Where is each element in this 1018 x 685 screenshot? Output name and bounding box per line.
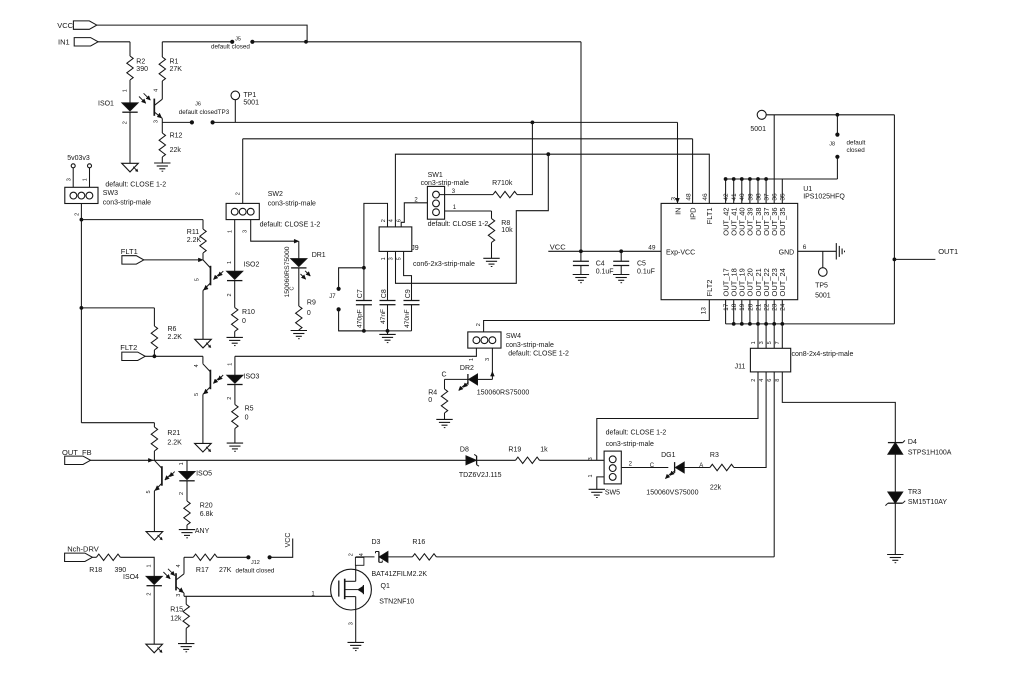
connector SW4 con3-strip-male xyxy=(468,332,501,348)
svg-text:default: CLOSE 1-2: default: CLOSE 1-2 xyxy=(260,222,321,229)
svg-text:1: 1 xyxy=(751,341,757,344)
svg-text:6: 6 xyxy=(396,219,402,222)
svg-text:R1: R1 xyxy=(170,59,179,66)
svg-text:ISO3: ISO3 xyxy=(244,374,260,381)
wire R17 to J12 xyxy=(217,556,248,558)
wire FLT2 to ISO3 collector xyxy=(145,355,203,357)
svg-text:SW2: SW2 xyxy=(268,191,283,198)
net label OUT1 stub xyxy=(894,258,935,260)
svg-text:DG1: DG1 xyxy=(661,452,676,459)
svg-text:GND: GND xyxy=(779,249,795,256)
test point TP5 xyxy=(822,251,824,267)
svg-text:C7: C7 xyxy=(357,289,364,298)
optocoupler ISO5 phototransistor xyxy=(154,460,162,468)
svg-text:ISO4: ISO4 xyxy=(123,574,139,581)
svg-text:TP5: TP5 xyxy=(815,282,828,289)
resistor R3 xyxy=(710,464,734,470)
svg-text:5001: 5001 xyxy=(815,292,831,299)
jumper J6 default closed xyxy=(190,120,194,124)
svg-text:default: CLOSE 1-2: default: CLOSE 1-2 xyxy=(508,351,569,358)
wire SW5 pin1 to ground xyxy=(597,477,604,489)
svg-text:R19: R19 xyxy=(508,447,521,454)
wire Q1 drain to D3 node xyxy=(355,557,357,570)
ground U1 GND rotated xyxy=(835,243,837,259)
svg-text:FLT2: FLT2 xyxy=(120,343,137,352)
svg-text:ISO2: ISO2 xyxy=(243,261,259,268)
svg-text:22k: 22k xyxy=(170,147,182,154)
transistor Q1 body diode xyxy=(345,589,358,591)
svg-text:1: 1 xyxy=(227,230,233,233)
svg-text:DR1: DR1 xyxy=(312,252,326,259)
svg-text:27K: 27K xyxy=(170,66,183,73)
svg-text:R20: R20 xyxy=(200,502,213,509)
svg-text:con3-strip-male: con3-strip-male xyxy=(103,200,151,207)
optocoupler ISO1 light arrows xyxy=(139,97,146,104)
svg-text:STPS1H100A: STPS1H100A xyxy=(908,449,952,456)
transistor Q1 STN2NF10 xyxy=(331,569,372,610)
junction FLT1 rail xyxy=(546,152,550,156)
resistor R5 xyxy=(232,405,238,429)
wire emitter to J6 xyxy=(162,121,192,123)
svg-text:4: 4 xyxy=(759,379,765,382)
svg-text:TP1: TP1 xyxy=(243,92,256,99)
optocoupler ISO5 light arrows xyxy=(165,475,170,480)
jumper J12 default closed xyxy=(246,555,250,559)
connector SW1 con3-strip-male xyxy=(427,186,444,219)
ground arrow ISO4 xyxy=(146,644,163,653)
svg-text:TDZ6V2J.115: TDZ6V2J.115 xyxy=(459,472,502,479)
svg-text:BAT41ZFILM2.2K: BAT41ZFILM2.2K xyxy=(372,571,428,578)
svg-text:6.8k: 6.8k xyxy=(200,511,214,518)
svg-text:3: 3 xyxy=(670,197,677,201)
connector J9 con6-2x3-strip-male xyxy=(379,227,412,252)
svg-text:1: 1 xyxy=(381,257,387,260)
wire U1 FLT2 pin to SW4 pin2 xyxy=(484,300,710,332)
ground arrow ISO3 xyxy=(195,443,212,452)
svg-text:5001: 5001 xyxy=(243,100,259,107)
junction FLT-R6 node xyxy=(80,306,84,310)
wire Q1 source to ground xyxy=(355,610,357,642)
svg-text:con3-strip-male: con3-strip-male xyxy=(421,180,469,187)
ground R4 xyxy=(436,418,452,420)
ground R9 xyxy=(291,330,307,332)
wire U1 bottom OUT pins to bus xyxy=(725,300,727,324)
IC U1 IPS1025HFQ xyxy=(661,203,798,299)
svg-text:OUT_FB: OUT_FB xyxy=(62,448,92,457)
resistor R16 xyxy=(412,554,436,560)
capacitor C7 xyxy=(356,300,372,302)
svg-text:0: 0 xyxy=(428,397,432,404)
svg-text:R6: R6 xyxy=(168,326,177,333)
wire test rail to OUT1 corner xyxy=(766,114,894,116)
svg-text:J7: J7 xyxy=(329,294,336,300)
svg-text:37: 37 xyxy=(764,193,771,201)
svg-text:5: 5 xyxy=(194,278,200,281)
svg-text:C: C xyxy=(289,287,295,291)
ground arrow ISO1 xyxy=(122,163,139,172)
wire J11 pin8 to D4 xyxy=(782,372,895,443)
junction VCC jog xyxy=(304,40,308,44)
ground C5 xyxy=(613,274,629,276)
svg-text:2: 2 xyxy=(476,323,482,326)
resistor R18 xyxy=(92,556,96,558)
connector SW5 con3-strip-male xyxy=(604,451,621,484)
svg-text:D4: D4 xyxy=(908,439,917,446)
wire J9 pin2 jog to C7 xyxy=(364,203,388,300)
svg-text:1: 1 xyxy=(469,358,475,361)
svg-text:5: 5 xyxy=(767,341,773,344)
wire SW4 pin1 to ISO3 anode xyxy=(235,348,477,356)
ground C8 rail xyxy=(379,333,395,335)
svg-text:2.2K: 2.2K xyxy=(168,334,183,341)
wire R18 to ISO4 LED xyxy=(120,557,154,576)
svg-text:U1: U1 xyxy=(803,186,812,193)
wire D4 to TR3 xyxy=(894,454,896,492)
svg-text:1: 1 xyxy=(228,363,234,366)
svg-text:4: 4 xyxy=(194,364,200,367)
svg-text:2: 2 xyxy=(74,213,80,216)
svg-text:5: 5 xyxy=(396,257,402,260)
ground R15 xyxy=(178,643,194,645)
svg-text:21: 21 xyxy=(755,303,762,311)
svg-text:3: 3 xyxy=(389,257,395,260)
wire OUT_FB to D8 xyxy=(91,459,467,461)
svg-text:ANY: ANY xyxy=(195,528,210,535)
connector SW2 con3-strip-male xyxy=(226,203,259,219)
svg-text:48: 48 xyxy=(685,193,692,201)
wire SW2 pin1 to ISO2 LED xyxy=(234,220,236,271)
svg-text:2: 2 xyxy=(122,121,128,124)
svg-text:SW5: SW5 xyxy=(605,490,620,497)
junction C7 top xyxy=(362,266,366,270)
svg-text:1: 1 xyxy=(588,474,594,477)
resistor R9 xyxy=(296,306,302,330)
resistor R11 xyxy=(202,220,204,229)
svg-text:ISO5: ISO5 xyxy=(196,470,212,477)
wire J9 pin1 to C8 xyxy=(387,252,389,301)
svg-text:IN: IN xyxy=(674,207,683,215)
svg-text:150060RS75000: 150060RS75000 xyxy=(477,389,530,396)
svg-text:4: 4 xyxy=(176,564,182,567)
jumper J8 default closed xyxy=(836,115,838,135)
capacitor C9 xyxy=(404,300,420,302)
svg-text:1k: 1k xyxy=(540,447,548,454)
wire R19 to SW5 pin3 xyxy=(540,459,604,461)
optocoupler ISO3 light arrows xyxy=(213,378,218,383)
svg-text:C8: C8 xyxy=(381,289,388,298)
test point TP1 xyxy=(231,91,240,100)
wire DG1 to R3 xyxy=(684,467,710,469)
svg-text:J8: J8 xyxy=(829,141,835,147)
svg-text:390: 390 xyxy=(136,66,148,73)
svg-text:Q1: Q1 xyxy=(381,583,390,590)
svg-text:default: CLOSE 1-2: default: CLOSE 1-2 xyxy=(606,430,667,437)
svg-text:5: 5 xyxy=(194,393,200,396)
svg-text:C: C xyxy=(442,372,447,379)
svg-text:R21: R21 xyxy=(167,430,180,437)
svg-text:36: 36 xyxy=(772,193,779,201)
wire DR2 to R4 xyxy=(445,378,468,380)
wire J11 pin4 to R3 xyxy=(765,372,767,468)
svg-text:1: 1 xyxy=(179,462,185,465)
resistor R20 xyxy=(184,501,190,525)
port FLT1 xyxy=(122,256,144,264)
svg-text:22: 22 xyxy=(764,303,771,311)
wire OUT1 vertical xyxy=(893,115,895,324)
wire SW2 pin2 to IPD line xyxy=(242,139,244,204)
port VCC xyxy=(73,21,96,29)
svg-text:con3-strip-male: con3-strip-male xyxy=(606,441,654,448)
svg-text:3: 3 xyxy=(66,178,72,181)
svg-text:VCC: VCC xyxy=(57,21,73,30)
svg-text:C: C xyxy=(650,463,655,469)
svg-text:Exp-VCC: Exp-VCC xyxy=(666,249,695,256)
svg-text:OUT1: OUT1 xyxy=(938,247,958,256)
jumper J5 default closed xyxy=(230,40,234,44)
wire SW1 pin1 to R8 xyxy=(445,210,492,212)
svg-text:FLT1: FLT1 xyxy=(121,247,138,256)
svg-text:J6: J6 xyxy=(195,101,201,107)
svg-text:2: 2 xyxy=(381,219,387,222)
resistor R12 xyxy=(159,133,165,157)
svg-text:R2: R2 xyxy=(136,59,145,66)
port OUT_FB xyxy=(65,456,91,464)
svg-text:2: 2 xyxy=(227,397,233,400)
wire left bus to R21 xyxy=(81,422,154,424)
svg-text:3: 3 xyxy=(242,230,248,233)
svg-text:C9: C9 xyxy=(405,289,412,298)
ground R5 xyxy=(227,442,243,444)
resistor R4 xyxy=(441,389,447,413)
wire J9 pin5 to C9 xyxy=(404,252,412,301)
wire J6 to U1 pin 3 IN xyxy=(213,121,678,123)
svg-text:R710k: R710k xyxy=(492,180,513,187)
ground arrow ISO2 xyxy=(195,339,212,348)
svg-text:closed: closed xyxy=(847,147,866,154)
svg-text:39: 39 xyxy=(747,193,754,201)
svg-text:VCC: VCC xyxy=(550,243,566,252)
resistor R6 xyxy=(153,308,155,326)
optocoupler ISO3 phototransistor xyxy=(202,356,204,364)
wire OUT bus riser to test rail xyxy=(773,115,775,179)
svg-text:0: 0 xyxy=(307,310,311,317)
svg-text:46: 46 xyxy=(702,193,709,201)
svg-text:C4: C4 xyxy=(596,260,605,267)
port FLT2 xyxy=(122,352,145,360)
svg-text:default closedTP3: default closedTP3 xyxy=(179,109,230,116)
wire FLT1 to ISO2 collector xyxy=(144,259,199,261)
svg-text:150060VS75000: 150060VS75000 xyxy=(646,489,698,496)
wire node to R6 xyxy=(81,307,154,309)
svg-text:ISO1: ISO1 xyxy=(98,101,114,108)
svg-text:J5: J5 xyxy=(235,36,241,42)
svg-text:42: 42 xyxy=(723,193,730,201)
svg-text:J12: J12 xyxy=(251,560,260,566)
svg-text:R5: R5 xyxy=(245,406,254,413)
resistor R17 xyxy=(184,556,193,558)
port Nch-DRV xyxy=(65,553,93,561)
svg-text:default: CLOSE 1-2: default: CLOSE 1-2 xyxy=(428,221,489,228)
svg-text:DR2: DR2 xyxy=(460,365,474,372)
svg-text:OUT_35: OUT_35 xyxy=(778,207,787,235)
svg-text:J9: J9 xyxy=(411,245,419,252)
svg-text:2: 2 xyxy=(349,553,355,556)
resistor R21 xyxy=(153,423,155,427)
svg-text:20: 20 xyxy=(747,303,754,311)
svg-text:5v03v3: 5v03v3 xyxy=(67,155,90,162)
svg-text:R11: R11 xyxy=(187,229,199,236)
svg-text:IPS1025HFQ: IPS1025HFQ xyxy=(803,194,845,201)
svg-text:TR3: TR3 xyxy=(908,489,921,496)
capacitor C4 xyxy=(580,251,582,261)
wire FLT1 rail J9 pin4 to U1 pin 46 xyxy=(395,154,709,227)
svg-text:2: 2 xyxy=(179,492,185,495)
svg-text:17: 17 xyxy=(723,303,730,311)
resistor R2 xyxy=(129,42,131,56)
svg-text:0: 0 xyxy=(245,415,249,422)
capacitor C8 xyxy=(380,300,396,302)
svg-text:40: 40 xyxy=(739,193,746,201)
svg-text:con6-2x3-strip-male: con6-2x3-strip-male xyxy=(413,261,475,268)
resistor R7 xyxy=(493,191,517,197)
ground R20 xyxy=(179,529,195,531)
ground arrow ISO5 xyxy=(146,532,163,541)
svg-text:27K: 27K xyxy=(219,567,232,574)
junction R7-IN xyxy=(531,121,535,125)
svg-text:5001: 5001 xyxy=(750,126,766,133)
svg-text:SW3: SW3 xyxy=(103,190,118,197)
junction FLT2-R6 xyxy=(153,354,157,358)
resistor R1 xyxy=(161,42,163,57)
wire R3 to J11 pin4 xyxy=(734,467,766,469)
svg-text:SW4: SW4 xyxy=(506,333,521,340)
svg-text:D8: D8 xyxy=(460,447,469,454)
wire J11 pin6 to drain net xyxy=(773,372,775,557)
optocoupler ISO2 phototransistor xyxy=(203,260,211,268)
wire J11 pin2 to SW5 pin3 xyxy=(597,372,758,460)
svg-text:R9: R9 xyxy=(307,300,316,307)
svg-text:Nch-DRV: Nch-DRV xyxy=(67,545,99,554)
svg-text:6: 6 xyxy=(803,244,807,251)
svg-text:41: 41 xyxy=(731,193,738,201)
svg-text:49: 49 xyxy=(648,245,656,252)
ground SW5 xyxy=(589,488,605,490)
svg-text:3: 3 xyxy=(485,358,491,361)
svg-text:default closed: default closed xyxy=(211,43,250,50)
svg-text:IPD: IPD xyxy=(689,207,698,220)
wire VCC to U1 pin 49 xyxy=(548,250,661,252)
svg-text:1: 1 xyxy=(147,564,153,567)
svg-text:18: 18 xyxy=(731,303,738,311)
resistor R10 xyxy=(232,308,238,332)
ground TR3 xyxy=(887,554,903,556)
svg-text:OUT_24: OUT_24 xyxy=(778,268,787,296)
svg-text:R3: R3 xyxy=(710,452,719,459)
svg-text:R4: R4 xyxy=(428,389,437,396)
svg-text:35: 35 xyxy=(780,193,787,201)
wire SW1 pin2 to J9 pin6 xyxy=(401,203,427,227)
svg-text:19: 19 xyxy=(739,303,746,311)
svg-text:con3-strip-male: con3-strip-male xyxy=(506,342,554,349)
svg-text:3: 3 xyxy=(348,622,354,625)
wire IPD to U1 pin 48 xyxy=(243,138,693,140)
svg-text:1: 1 xyxy=(83,178,89,181)
svg-text:12k: 12k xyxy=(170,615,182,622)
svg-text:J11: J11 xyxy=(735,363,746,370)
svg-text:4: 4 xyxy=(389,219,395,222)
wire gate line to Q1 xyxy=(184,595,339,597)
svg-text:SM15T10AY: SM15T10AY xyxy=(908,499,947,506)
wire D3 to R16 xyxy=(388,556,413,558)
svg-text:6: 6 xyxy=(767,379,773,382)
svg-text:SW1: SW1 xyxy=(428,172,443,179)
svg-text:38: 38 xyxy=(755,193,762,201)
svg-text:3: 3 xyxy=(154,120,160,123)
svg-text:10k: 10k xyxy=(501,227,513,234)
svg-text:con3-strip-male: con3-strip-male xyxy=(268,200,316,207)
connector J11 con8-2x4-strip-male xyxy=(750,348,790,372)
wire TR3 to ground xyxy=(894,503,896,554)
svg-text:C5: C5 xyxy=(637,260,646,267)
wire VCC rail to jog xyxy=(97,25,307,42)
capacitor C5 xyxy=(620,251,622,261)
svg-text:8: 8 xyxy=(775,379,781,382)
svg-text:13: 13 xyxy=(700,307,707,315)
svg-text:23: 23 xyxy=(772,303,779,311)
svg-text:default: CLOSE 1-2: default: CLOSE 1-2 xyxy=(105,181,166,188)
svg-text:2: 2 xyxy=(235,192,241,195)
port IN1 xyxy=(74,38,98,46)
svg-text:IN1: IN1 xyxy=(58,37,70,46)
ground R10 xyxy=(227,336,243,338)
ground Q1 xyxy=(348,641,364,643)
svg-text:47nF: 47nF xyxy=(380,309,387,324)
connector SW3 con3-strip-male xyxy=(65,187,98,203)
svg-text:2: 2 xyxy=(227,293,233,296)
wire U1 GND pin xyxy=(798,250,837,252)
wire SW3 pin2 down xyxy=(80,204,82,220)
wire SW2 pin3 to DR1 xyxy=(251,220,295,241)
svg-text:R12: R12 xyxy=(170,133,183,140)
optocoupler ISO4 light arrows xyxy=(163,572,170,579)
junction SW3 node xyxy=(80,218,84,222)
svg-text:0: 0 xyxy=(242,318,246,325)
svg-text:5: 5 xyxy=(146,490,152,493)
ground R12 xyxy=(154,162,170,164)
svg-text:3: 3 xyxy=(176,594,182,597)
wire SW4 pin3 to DR2 xyxy=(491,348,493,379)
svg-text:R17: R17 xyxy=(196,567,209,574)
svg-text:0.1uF: 0.1uF xyxy=(596,269,614,276)
svg-text:default closed: default closed xyxy=(236,567,275,574)
wire U1 top OUT pins to bus xyxy=(725,179,727,203)
wire left bus down xyxy=(80,220,82,423)
wire SW5 pin2 to DG1 xyxy=(622,467,669,469)
svg-text:2: 2 xyxy=(751,379,757,382)
svg-text:R16: R16 xyxy=(412,539,425,546)
svg-text:2.2K: 2.2K xyxy=(167,440,182,447)
optocoupler ISO2 light arrows xyxy=(214,274,219,279)
wire top OUT bus xyxy=(726,178,838,180)
svg-text:STN2NF10: STN2NF10 xyxy=(379,598,414,605)
svg-text:A: A xyxy=(699,463,703,469)
ground C4 xyxy=(573,274,589,276)
svg-text:470nF: 470nF xyxy=(404,309,411,328)
svg-text:FLT1: FLT1 xyxy=(705,207,714,224)
svg-text:FLT2: FLT2 xyxy=(705,280,714,297)
resistor R19 xyxy=(516,457,540,463)
svg-text:R8: R8 xyxy=(501,220,510,227)
